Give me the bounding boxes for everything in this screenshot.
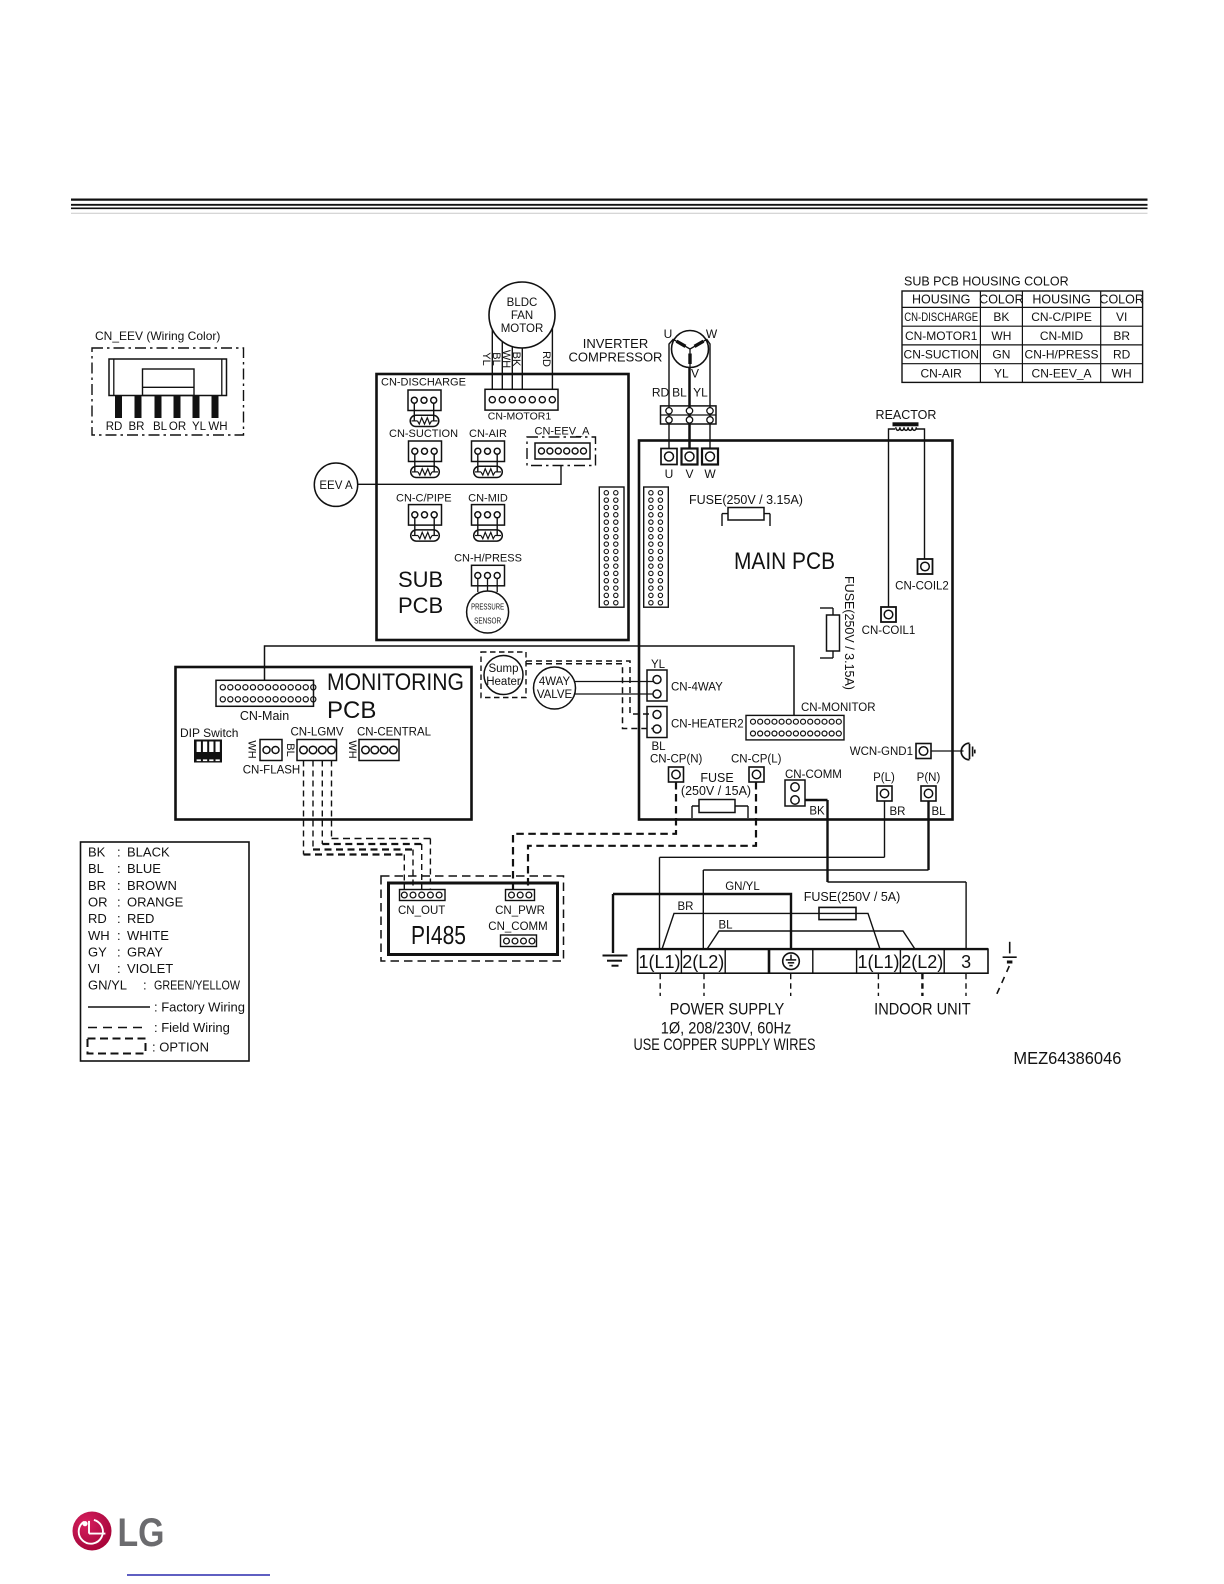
svg-text:CN-Main: CN-Main (240, 709, 289, 723)
connector CN-SUCTION + thermistor (389, 428, 458, 478)
svg-text:CN-MOTOR1: CN-MOTOR1 (905, 329, 978, 343)
earth ground symbol (indoor unit side, field) (996, 942, 1017, 997)
svg-text::: : (117, 911, 121, 926)
svg-text:: OPTION: : OPTION (152, 1040, 209, 1055)
svg-text:CN-MID: CN-MID (1040, 329, 1084, 343)
svg-text:BL: BL (672, 386, 687, 400)
svg-text:BLACK: BLACK (127, 845, 170, 860)
svg-text:OR: OR (88, 894, 108, 909)
top rule (triple line) (71, 200, 1148, 214)
svg-text::: : (117, 928, 121, 943)
wire color labels YL BL WH BK RD (motor leads) (480, 350, 552, 368)
table: SUB PCB HOUSING COLOR (902, 275, 1144, 383)
svg-text::: : (117, 894, 121, 909)
LG logo (73, 1511, 165, 1555)
connectors U V W (compressor terminals on MAIN PCB) (661, 449, 718, 482)
svg-text:U: U (664, 327, 673, 341)
fuse F4 FUSE(250V / 5A) (819, 907, 856, 919)
connector CN-DISCHARGE + thermistor (381, 377, 466, 427)
connector CN-Main (2x13) (216, 680, 316, 723)
svg-text:4WAY: 4WAY (539, 676, 571, 688)
svg-text:RED: RED (127, 911, 154, 926)
svg-text:CN-COIL2: CN-COIL2 (895, 581, 949, 593)
svg-text:CN-FLASH: CN-FLASH (243, 765, 301, 777)
sensor PS1 (PRESSURE SENSOR) (467, 591, 509, 633)
connector WCN-GND1 with earth wire (850, 744, 964, 759)
svg-text:RD: RD (540, 351, 552, 367)
svg-text:1(L1): 1(L1) (638, 952, 680, 972)
wire 4way valve to CN-4WAY pin1 (575, 681, 654, 683)
wire reactor to CN-COIL2 (916, 429, 925, 559)
svg-text:CN-COIL1: CN-COIL1 (862, 625, 916, 637)
motor M2 (inverter compressor) circle with U V W terminals (664, 327, 718, 381)
svg-text:Sump: Sump (488, 663, 518, 675)
svg-text:CN-DISCHARGE: CN-DISCHARGE (904, 310, 978, 324)
label: INDOOR UNIT (874, 1001, 971, 1019)
legend: field wiring symbol (88, 1020, 230, 1035)
label GN/YL (725, 881, 760, 893)
wire 4way valve to CN-4WAY pin2 (575, 693, 653, 695)
svg-text:GN/YL: GN/YL (725, 881, 760, 893)
svg-text:BR: BR (890, 806, 906, 818)
svg-text:2(L2): 2(L2) (682, 952, 724, 972)
svg-text:VI: VI (88, 961, 100, 976)
svg-text:WH: WH (1112, 366, 1132, 380)
svg-text:EEV A: EEV A (319, 480, 353, 492)
svg-text:BR: BR (1113, 329, 1130, 343)
svg-text:RD: RD (652, 386, 670, 400)
earth ground symbol (power supply side) (603, 956, 628, 966)
svg-text:CN-DISCHARGE: CN-DISCHARGE (381, 377, 466, 389)
heater (Sump Heater, option) (481, 652, 526, 698)
svg-text:CN-COMM: CN-COMM (785, 769, 842, 781)
svg-text:SUB: SUB (398, 567, 443, 592)
wire BL jumper power 2(L2) to indoor 2(L2) (707, 931, 915, 949)
svg-text:BK: BK (993, 310, 1009, 324)
svg-text:WH: WH (208, 421, 227, 433)
svg-text:BK: BK (510, 352, 522, 367)
svg-text:CN-HEATER2: CN-HEATER2 (671, 719, 744, 731)
svg-text::: : (117, 878, 121, 893)
svg-text:BL: BL (931, 806, 946, 818)
svg-text:SENSOR: SENSOR (474, 616, 501, 626)
svg-text:VALVE: VALVE (537, 689, 573, 701)
label: POWER SUPPLY (634, 1001, 816, 1055)
svg-text:CN_COMM: CN_COMM (488, 921, 547, 933)
connector CN-CP(N) (650, 754, 703, 783)
svg-text:BR: BR (678, 901, 694, 913)
svg-text:BL: BL (88, 861, 104, 876)
connector CN-AIR + thermistor (469, 428, 507, 478)
svg-text:CN-AIR: CN-AIR (469, 428, 507, 440)
connector P(L) (873, 772, 905, 818)
svg-text:BLUE: BLUE (127, 861, 161, 876)
valve EEV A (electronic expansion valve) (314, 463, 357, 506)
svg-text::: : (143, 978, 147, 993)
svg-text:GN/YL: GN/YL (88, 978, 127, 993)
svg-text:RD: RD (1113, 348, 1131, 362)
svg-text:LG: LG (118, 1511, 165, 1555)
earth terminal (circle with earth symbol) (783, 953, 800, 970)
svg-text:BL: BL (651, 741, 666, 753)
svg-text:1(L1): 1(L1) (857, 952, 899, 972)
MONITORING PCB board outline (176, 667, 472, 820)
svg-text:CN-LGMV: CN-LGMV (290, 727, 343, 739)
label: SUB PCB (398, 567, 443, 618)
svg-text:BLDC: BLDC (507, 297, 538, 309)
wire CN-LGMV pin1 to CN_OUT (dashed) (304, 761, 405, 890)
terminal block TB1 (compressor leads, 2x3) (661, 406, 717, 424)
svg-text:MOTOR: MOTOR (501, 323, 544, 335)
wire CN-CP(L) to CN_PWR (dashed) (528, 782, 756, 890)
svg-text:WH: WH (246, 740, 258, 758)
fuse F2 FUSE(250V / 3.15A) vertical (820, 576, 856, 690)
wire GN/YL earth to terminal (613, 894, 791, 953)
wire CN-CP(N) to CN_PWR (dashed) (513, 782, 676, 890)
wire sump heater to CN-HEATER2 pin1 (dashed option) (526, 661, 653, 714)
label BL (718, 920, 733, 932)
svg-text:CN-EEV_A: CN-EEV_A (1032, 366, 1092, 380)
svg-text:: Field Wiring: : Field Wiring (154, 1020, 230, 1035)
wire BR jumper power 1(L1) to indoor 1(L1) via fuse (662, 913, 880, 949)
svg-text:VI: VI (1116, 310, 1127, 324)
svg-text:V: V (691, 367, 699, 381)
svg-text:BK: BK (88, 845, 106, 860)
svg-text:CN-C/PIPE: CN-C/PIPE (1031, 310, 1092, 324)
svg-text:CN-SUCTION: CN-SUCTION (389, 428, 458, 440)
svg-text::: : (117, 944, 121, 959)
wire sump heater to CN-HEATER2 pin2 (dashed option) (526, 664, 653, 729)
svg-text:BROWN: BROWN (127, 878, 177, 893)
connector CN-EEV_A (6-pin, option) (527, 426, 596, 466)
svg-text:BL: BL (284, 743, 296, 756)
wire CN-Main to CN-MONITOR (265, 646, 795, 715)
svg-text:CN-CENTRAL: CN-CENTRAL (357, 727, 432, 739)
svg-text:FUSE: FUSE (700, 771, 733, 785)
svg-text:CN-MONITOR: CN-MONITOR (801, 702, 876, 714)
legend: factory wiring symbol (88, 1000, 245, 1015)
dashed field-wiring stubs below terminal strip (660, 974, 966, 996)
svg-text:CN-EEV_A: CN-EEV_A (535, 426, 591, 438)
label: MEZ64386046 (1013, 1048, 1121, 1068)
MAIN PCB board outline (639, 441, 953, 820)
svg-text:CN-H/PRESS: CN-H/PRESS (1025, 348, 1099, 362)
wire BR P(L) to power 1(L1) (660, 801, 885, 949)
svg-text:CN-4WAY: CN-4WAY (671, 682, 723, 694)
svg-text:1Ø, 208/230V, 60Hz: 1Ø, 208/230V, 60Hz (661, 1020, 792, 1038)
wire CN-LGMV pin2 to CN_OUT (dashed) (313, 761, 413, 890)
label BR (678, 901, 694, 913)
pin header J2 (MAIN PCB edge connector) (644, 487, 669, 607)
connector CN-4WAY (647, 659, 723, 701)
svg-text:CN_PWR: CN_PWR (495, 905, 545, 917)
fuse F3 FUSE(250V / 15A) (681, 771, 751, 818)
connector CN-CENTRAL (4-pin) (346, 727, 432, 761)
chassis ground (frame earth symbol) (961, 743, 975, 760)
connector CN-HEATER2 (647, 707, 744, 754)
inductor L1 (REACTOR) (876, 408, 937, 430)
connector CN-MONITOR (2x13) (746, 702, 876, 740)
svg-text::: : (117, 845, 121, 860)
svg-text:CN-C/PIPE: CN-C/PIPE (396, 493, 452, 505)
svg-text:CN_EEV (Wiring Color): CN_EEV (Wiring Color) (95, 329, 220, 343)
svg-text:U: U (665, 467, 674, 481)
svg-text:DIP Switch: DIP Switch (180, 726, 238, 740)
svg-text:VIOLET: VIOLET (127, 961, 173, 976)
svg-text:BL: BL (718, 920, 733, 932)
legend: wire color abbreviations (81, 842, 250, 1061)
connector CN_EEV (wiring color legend) (92, 329, 244, 435)
svg-text:CN-AIR: CN-AIR (921, 366, 963, 380)
pin header J1 (SUB PCB edge connector) (599, 487, 624, 607)
svg-text:FUSE(250V / 5A): FUSE(250V / 5A) (804, 890, 901, 904)
label: MAIN PCB (734, 548, 835, 575)
svg-text:GREEN/YELLOW: GREEN/YELLOW (154, 978, 241, 993)
svg-text:FUSE(250V / 3.15A): FUSE(250V / 3.15A) (842, 576, 856, 690)
svg-text:MEZ64386046: MEZ64386046 (1013, 1048, 1121, 1068)
svg-text:GRAY: GRAY (127, 944, 163, 959)
svg-text:CN_OUT: CN_OUT (398, 905, 445, 917)
svg-text:CN-MOTOR1: CN-MOTOR1 (488, 411, 552, 423)
svg-text:ORANGE: ORANGE (127, 894, 184, 909)
svg-text:2(L2): 2(L2) (901, 952, 943, 972)
legend: option symbol (88, 1039, 210, 1055)
connector CN-LGMV (4-pin) (284, 727, 344, 761)
svg-text:PRESSURE: PRESSURE (471, 602, 504, 612)
svg-text:MAIN PCB: MAIN PCB (734, 548, 835, 575)
wire BL P(N) to power 2(L2) (703, 801, 928, 949)
svg-text:USE COPPER SUPPLY WIRES: USE COPPER SUPPLY WIRES (634, 1036, 816, 1054)
svg-text::: : (117, 961, 121, 976)
motor M1 (BLDC FAN MOTOR) with 5 wires to CN-MOTOR1 (489, 282, 555, 389)
SUB PCB board outline (377, 374, 629, 640)
svg-text:WCN-GND1: WCN-GND1 (850, 746, 913, 758)
svg-text:W: W (704, 467, 716, 481)
svg-text:RD: RD (88, 911, 107, 926)
svg-text:COLOR: COLOR (1099, 293, 1143, 307)
module U1 (PI485 interface) with CN_OUT / CN_PWR / CN_COMM (381, 876, 564, 961)
svg-text:BK: BK (809, 806, 825, 818)
svg-text:YL: YL (651, 659, 666, 671)
svg-text:PCB: PCB (398, 593, 443, 618)
label: MONITORING PCB (327, 669, 464, 724)
svg-text:CN-MID: CN-MID (468, 493, 508, 505)
svg-text:GN: GN (992, 348, 1010, 362)
svg-text:(250V / 15A): (250V / 15A) (681, 784, 751, 798)
connector CN-C/PIPE + thermistor (396, 493, 452, 542)
svg-text:PCB: PCB (327, 697, 376, 724)
wire CN-LGMV pin4 to CN_OUT (dashed) (332, 761, 431, 890)
svg-text:WH: WH (991, 329, 1011, 343)
svg-text:MONITORING: MONITORING (327, 669, 464, 696)
wire CN-LGMV pin3 to CN_OUT (dashed) (322, 761, 421, 890)
svg-text:CN-CP(N): CN-CP(N) (650, 754, 703, 766)
connector CN-H/PRESS (454, 553, 522, 593)
svg-text:WH: WH (346, 740, 358, 758)
connector CN-MOTOR1 (7-pin) (485, 389, 558, 422)
svg-text:RD: RD (106, 421, 123, 433)
svg-text:INDOOR UNIT: INDOOR UNIT (874, 1001, 971, 1019)
svg-text:P(N): P(N) (917, 772, 941, 784)
svg-text:OR: OR (169, 421, 186, 433)
svg-text:YL: YL (192, 421, 207, 433)
svg-text:SUB PCB HOUSING COLOR: SUB PCB HOUSING COLOR (904, 275, 1069, 289)
connector CN-COIL1 (862, 607, 916, 637)
connector CN-FLASH (243, 740, 301, 777)
wire BK CN-COMM to indoor terminal 3 (805, 800, 966, 949)
svg-text:BR: BR (129, 421, 145, 433)
svg-text:COMPRESSOR: COMPRESSOR (569, 350, 663, 365)
svg-text:BR: BR (88, 878, 106, 893)
svg-text:Heater: Heater (486, 676, 521, 688)
svg-text:FAN: FAN (511, 310, 533, 322)
labels RD BL YL (compressor leads) (652, 386, 708, 400)
connector CN-COMM (785, 769, 842, 818)
svg-text:PI485: PI485 (411, 920, 466, 950)
svg-text:3: 3 (961, 952, 971, 972)
DIP switch SW1 (180, 726, 238, 763)
label: INVERTER COMPRESSOR (569, 336, 663, 365)
connector CN-CP(L) (731, 754, 782, 783)
svg-text:HOUSING: HOUSING (912, 293, 970, 307)
svg-text:FUSE(250V / 3.15A): FUSE(250V / 3.15A) (689, 493, 803, 507)
svg-text:REACTOR: REACTOR (876, 408, 937, 422)
wire reactor to CN-COIL1 (889, 429, 896, 607)
svg-text:POWER SUPPLY: POWER SUPPLY (670, 1001, 785, 1019)
connector CN-MID + thermistor (468, 493, 508, 542)
svg-text:WHITE: WHITE (127, 928, 169, 943)
footer blue rule (127, 1574, 270, 1576)
fuse F1 FUSE(250V / 3.15A) (689, 493, 803, 526)
svg-text:V: V (685, 467, 693, 481)
label FUSE(250V / 5A) (804, 890, 901, 904)
terminal strip TB2 (outdoor unit) (638, 949, 988, 973)
svg-text:CN-SUCTION: CN-SUCTION (904, 348, 979, 362)
svg-text:COLOR: COLOR (979, 293, 1023, 307)
svg-text:YL: YL (994, 366, 1009, 380)
svg-text:HOUSING: HOUSING (1032, 293, 1090, 307)
svg-text:W: W (706, 327, 718, 341)
svg-text:YL: YL (693, 386, 708, 400)
valve (4WAY VALVE) (534, 667, 576, 709)
svg-text:CN-H/PRESS: CN-H/PRESS (454, 553, 522, 565)
connector P(N) (917, 772, 946, 818)
svg-text:P(L): P(L) (873, 772, 895, 784)
svg-text:: Factory Wiring: : Factory Wiring (154, 1000, 245, 1015)
wires RD/BL/YL compressor to terminal block (669, 339, 710, 449)
connector CN-COIL2 (895, 559, 949, 593)
svg-text::: : (117, 861, 121, 876)
svg-text:GY: GY (88, 944, 107, 959)
svg-text:CN-CP(L): CN-CP(L) (731, 754, 782, 766)
svg-text:WH: WH (88, 928, 110, 943)
svg-text:BL: BL (153, 421, 168, 433)
wire CN-EEV_A to EEV A (358, 466, 561, 485)
